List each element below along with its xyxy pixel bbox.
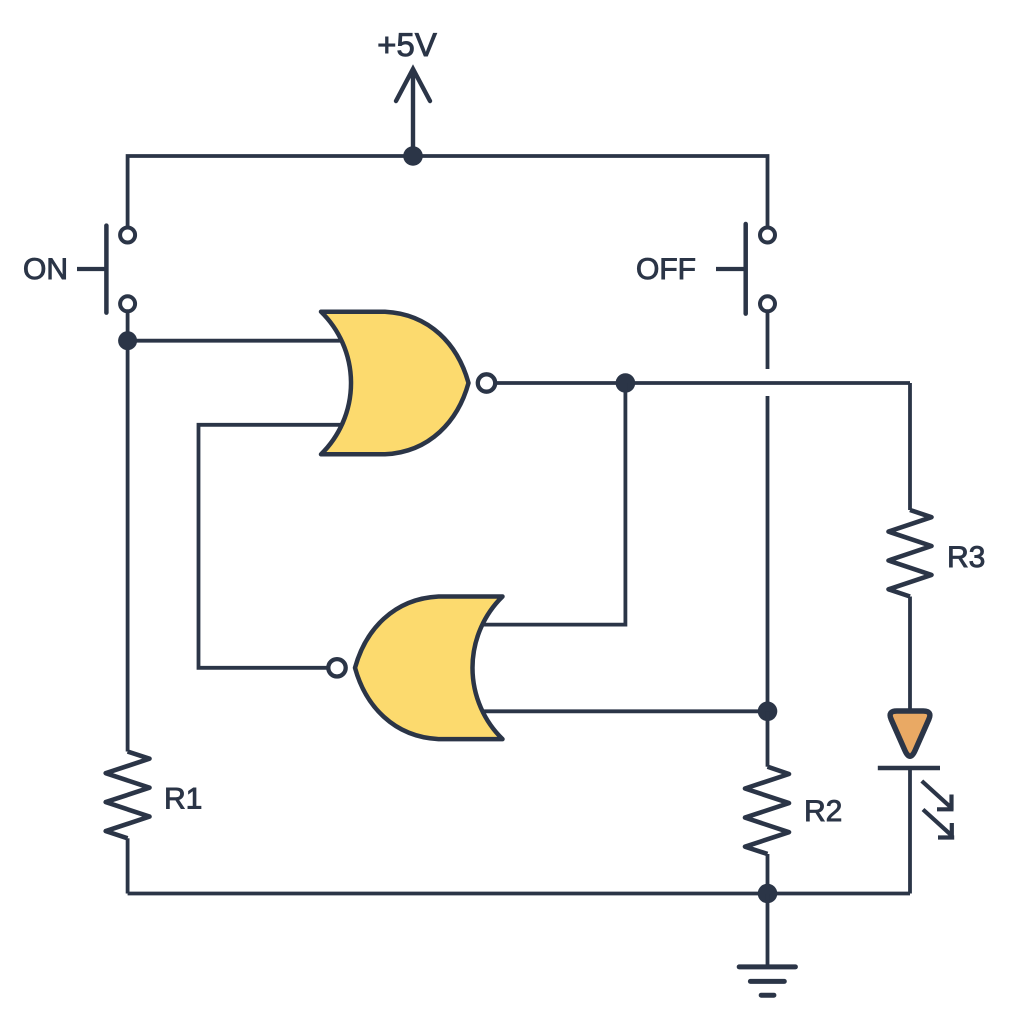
wire: bottom ground rail [128,892,910,896]
LED D1 light arrow 2 [923,810,954,839]
wire: R2 to ground rail [766,854,770,894]
pushbutton SW1 ON: label stub wire [77,267,106,271]
NOR gate U1 [321,312,469,455]
wire: ON button to node A [126,312,130,341]
pushbutton SW1 ON: bottom contact [120,296,135,311]
ground symbol [739,967,795,995]
wire: node A to gate U1 input 1 [128,339,345,343]
pushbutton SW2 OFF: label stub wire [716,267,746,271]
NOR gate U2 output bubble [328,659,345,676]
junction: node A [118,331,137,350]
pushbutton SW1 ON: top contact [120,228,135,243]
power +5V arrow symbol [396,69,430,156]
wire: ground stem [766,894,770,967]
wire: OFF button to lower crossing [766,312,770,370]
NOR gate U1 output bubble [478,374,495,391]
power +5V label [379,33,437,56]
wire: crossing hop to node B [766,396,770,711]
wire: R3 to LED D1 [908,597,912,712]
wire: node Q down to U2 input 1 [480,383,625,625]
pushbutton SW2 OFF: bottom contact [760,296,775,311]
pushbutton SW1 ON: actuator bar [104,226,109,313]
wire: U2 input 2 to node B [480,709,768,713]
LED D1 cathode bar [878,766,940,771]
label OFF [637,258,694,279]
wire: LED cathode down to bottom rail [908,768,912,894]
wire: node A down to R1 [126,341,130,752]
resistor R2 [745,767,789,854]
pushbutton SW2 OFF: actuator bar [743,224,748,314]
label R3 [950,546,985,567]
wire: R1 to bottom rail [126,838,130,893]
wire: gate U2 output feedback to gate U1 input 2 [199,425,346,668]
pushbutton SW2 OFF: top contact [760,228,775,243]
resistor R1 [106,752,150,839]
junction: node B [758,702,778,722]
wire: top +5V rail [128,156,768,227]
junction: U1 output node Q [616,373,636,393]
wire: node B down to R2 [766,711,770,766]
resistor R3 [889,510,932,597]
wire: U1 output to right column [497,381,911,385]
label R1 [167,788,201,809]
NOR gate U2 [355,597,503,740]
LED D1 anode triangle [890,711,930,756]
LED D1 light arrow 1 [922,781,954,810]
junction: ground node [758,884,778,904]
label ON [24,258,65,279]
wire: right column down to R3 [908,383,912,510]
label R2 [807,800,841,821]
junction: +5V rail node [403,146,423,166]
